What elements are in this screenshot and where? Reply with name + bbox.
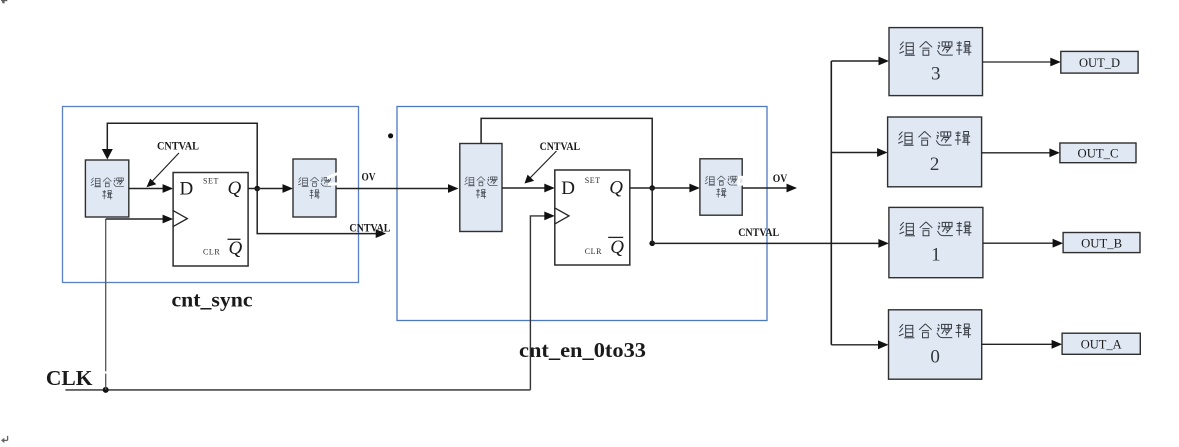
node stray dot: [388, 133, 393, 138]
comb logic block U6 (组合逻辑): [700, 159, 742, 215]
svg-text:CLR: CLR: [585, 247, 602, 256]
svg-text:D: D: [180, 179, 194, 200]
comb logic block 3: [889, 28, 983, 96]
node Q2 junction lower: [649, 241, 655, 247]
wire CLK rail: [65, 389, 530, 391]
D flip-flop U2: [173, 173, 248, 267]
wire branch to comb 0: [831, 344, 879, 346]
wire CNTVAL leader arrow: [152, 153, 179, 182]
svg-text:Q: Q: [229, 238, 243, 259]
module box cnt_en_0to33: [397, 107, 767, 321]
port box OUT_A: [1062, 333, 1140, 354]
svg-text:CNTVAL: CNTVAL: [738, 225, 779, 239]
wire U4 to D input of U5: [502, 187, 545, 189]
wire CNTVAL out of cnt_en to bus: [652, 242, 879, 244]
wire feedback cnt_en (Q to U4 top): [481, 118, 652, 188]
svg-text:3: 3: [931, 64, 941, 85]
node Q1 junction: [254, 186, 260, 192]
wire branch to comb 3: [831, 60, 879, 62]
white callout break on U6: [737, 176, 745, 186]
svg-text:CNTVAL: CNTVAL: [540, 139, 581, 153]
wire comb2 to OUT_C: [982, 152, 1051, 154]
svg-text:0: 0: [930, 347, 940, 368]
svg-text:Q: Q: [610, 237, 624, 258]
wire U2 clock input horizontal: [106, 218, 164, 220]
white callout breaks on U3: [327, 172, 340, 180]
svg-text:CLR: CLR: [203, 248, 220, 257]
wire Q2 junction vertical: [651, 188, 653, 243]
svg-text:1: 1: [931, 245, 941, 266]
wire branch to comb 2: [831, 152, 878, 154]
wire CNTVAL out of cnt_sync: [257, 189, 376, 234]
paragraph mark bottom-left: [1, 436, 8, 443]
wire feedback cnt_sync (Q to U1 top): [107, 123, 257, 188]
svg-text:SET: SET: [585, 176, 601, 185]
comb logic block 1: [889, 207, 983, 277]
D flip-flop U5: [555, 170, 630, 265]
wire OV output stage2: [742, 187, 787, 189]
svg-text:Q: Q: [228, 178, 242, 199]
svg-text:Q: Q: [609, 177, 623, 198]
svg-text:CNTVAL: CNTVAL: [157, 139, 199, 153]
comb logic block U3 (组合逻辑): [293, 159, 336, 217]
svg-text:OUT_A: OUT_A: [1081, 337, 1123, 352]
wire CLK to U5 clock: [530, 216, 545, 390]
module box cnt_sync: [63, 107, 359, 283]
svg-text:OUT_D: OUT_D: [1079, 55, 1120, 70]
svg-text:2: 2: [930, 154, 940, 175]
comb logic block U1 (组合逻辑): [85, 160, 128, 217]
svg-text:CNTVAL: CNTVAL: [349, 220, 390, 234]
wire comb3 to OUT_D: [983, 61, 1052, 63]
wire Q1 to U3: [248, 188, 283, 190]
svg-text:OV: OV: [773, 171, 788, 185]
svg-text:OV: OV: [362, 170, 376, 184]
wire Q2 to U6: [630, 187, 691, 189]
wire comb1 to OUT_B: [983, 242, 1054, 244]
svg-text:SET: SET: [203, 177, 219, 186]
wire output bus vertical: [830, 61, 832, 345]
node Q2 junction upper: [649, 185, 655, 191]
svg-text:cnt_sync: cnt_sync: [172, 287, 253, 311]
node CLK junction: [103, 387, 109, 393]
svg-text:cnt_en_0to33: cnt_en_0to33: [519, 338, 646, 362]
svg-text:OUT_C: OUT_C: [1078, 146, 1119, 161]
svg-text:OUT_B: OUT_B: [1081, 235, 1122, 250]
port box OUT_C: [1060, 143, 1136, 163]
port box OUT_B: [1063, 233, 1140, 253]
svg-text:CLK: CLK: [46, 366, 93, 390]
wire U1 to D input: [129, 188, 164, 190]
svg-text:D: D: [561, 178, 575, 199]
comb logic block U4 (组合逻辑): [460, 144, 502, 232]
wire CLK to U2 clock (vertical with gap): [105, 219, 107, 390]
wire CNTVAL leader arrow 2: [530, 151, 557, 179]
comb logic block 0: [889, 310, 982, 379]
wire OV stage1 to stage2: [336, 188, 449, 190]
comb logic block 2: [888, 117, 982, 187]
paragraph mark top-left: [1, 0, 7, 3]
port box OUT_D: [1061, 51, 1138, 73]
wire comb0 to OUT_A: [982, 343, 1053, 345]
